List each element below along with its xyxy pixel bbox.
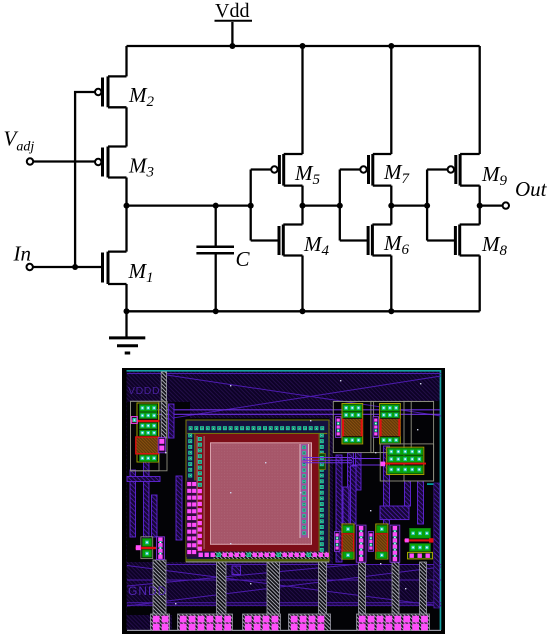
svg-text:M2: M2 [128, 83, 155, 110]
svg-text:M5: M5 [294, 161, 321, 188]
svg-text:M4: M4 [303, 232, 330, 259]
svg-text:Vadj: Vadj [4, 127, 35, 155]
svg-text:M6: M6 [383, 231, 410, 258]
svg-text:VDDD: VDDD [128, 385, 160, 397]
svg-text:M9: M9 [481, 162, 508, 189]
svg-text:Vdd: Vdd [215, 0, 249, 22]
svg-text:In: In [13, 242, 32, 266]
svg-text:M1: M1 [128, 259, 154, 286]
svg-text:M3: M3 [128, 154, 154, 181]
svg-text:M7: M7 [383, 160, 411, 187]
svg-text:GNDD: GNDD [128, 584, 167, 598]
svg-text:C: C [236, 247, 251, 271]
svg-text:Out: Out [515, 177, 548, 201]
svg-text:M8: M8 [481, 232, 508, 259]
